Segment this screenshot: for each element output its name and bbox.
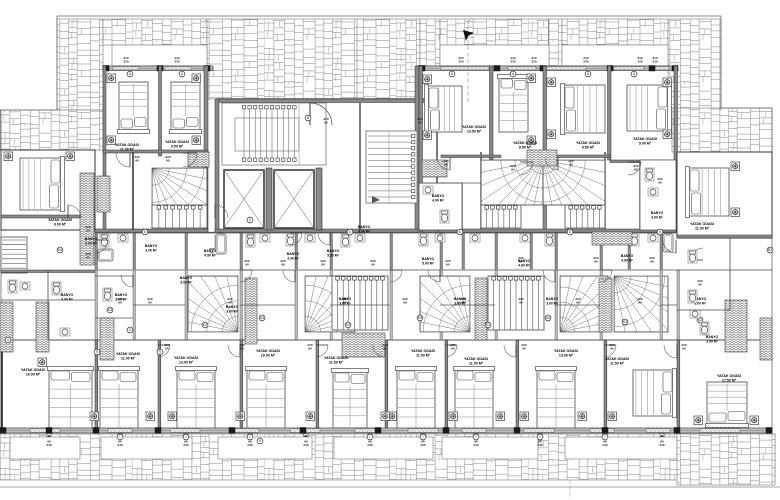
door xyxy=(628,162,641,175)
wall right wing v xyxy=(729,238,731,310)
lamp xyxy=(236,412,245,421)
svg-text:YATAK ODASI: YATAK ODASI xyxy=(554,349,578,353)
svg-text:t: t xyxy=(120,435,121,439)
bottom zone wall xyxy=(295,270,298,340)
lamp xyxy=(192,74,201,83)
terrace door post xyxy=(538,434,542,437)
tag circle xyxy=(107,307,113,313)
bottom hatch band xyxy=(0,434,775,480)
svg-text:90: 90 xyxy=(522,346,526,350)
elevator shaft 1 xyxy=(224,170,264,228)
bath wall xyxy=(495,233,498,269)
svg-text:K2: K2 xyxy=(346,323,350,327)
terrace xyxy=(334,437,433,459)
bottom bedroom top wall xyxy=(1,339,772,341)
svg-text:9.50 M²: 9.50 M² xyxy=(519,146,532,150)
terrace door post xyxy=(368,434,372,437)
bottom window wall xyxy=(0,428,772,433)
wardrobe xyxy=(97,176,110,212)
fan stair top-right pair1 xyxy=(466,160,543,237)
svg-text:D4: D4 xyxy=(418,316,422,320)
toilet xyxy=(545,233,554,246)
door xyxy=(663,240,676,253)
column xyxy=(419,66,425,72)
column xyxy=(300,428,306,434)
door xyxy=(68,205,81,218)
tag circle xyxy=(183,434,189,440)
wall left wing bedroom bottom xyxy=(1,215,95,218)
svg-text:220: 220 xyxy=(174,59,179,63)
lamp xyxy=(423,75,432,84)
svg-text:BANYO: BANYO xyxy=(546,297,559,301)
svg-text:90: 90 xyxy=(240,346,244,350)
wall between top-left units xyxy=(159,66,162,156)
svg-text:3.00 M²: 3.00 M² xyxy=(339,301,351,305)
svg-text:9.00 M²: 9.00 M² xyxy=(639,142,652,146)
door xyxy=(318,233,330,245)
svg-text:90: 90 xyxy=(324,120,328,124)
svg-text:90: 90 xyxy=(166,158,170,162)
bed top unit4 xyxy=(498,75,530,133)
column xyxy=(602,428,608,434)
svg-text:YATAK ODASI: YATAK ODASI xyxy=(633,137,657,141)
outer boundary right upper xyxy=(720,16,722,110)
svg-text:6: 6 xyxy=(349,230,351,234)
svg-text:240: 240 xyxy=(367,443,372,447)
bath wall xyxy=(330,233,333,269)
core left wall xyxy=(215,99,219,232)
svg-text:t: t xyxy=(540,435,541,439)
lamp xyxy=(306,412,315,421)
bath wall xyxy=(628,233,631,269)
svg-text:90: 90 xyxy=(658,180,662,184)
ground line xyxy=(0,486,780,488)
svg-text:10.00 M²: 10.00 M² xyxy=(261,354,276,358)
terrace door post xyxy=(304,434,308,437)
svg-text:BANYO: BANYO xyxy=(204,249,217,253)
tag circle xyxy=(767,247,773,253)
svg-text:240: 240 xyxy=(473,443,478,447)
wardrobe xyxy=(422,160,447,177)
window wall band top-left xyxy=(103,66,213,71)
toilet xyxy=(246,234,255,247)
svg-text:6: 6 xyxy=(659,230,661,234)
roof hatch left wing xyxy=(0,110,103,150)
svg-text:90: 90 xyxy=(403,300,407,304)
door xyxy=(215,205,228,218)
toilet xyxy=(215,235,224,248)
svg-text:9: 9 xyxy=(96,350,98,354)
wall top-right unit xyxy=(608,66,612,160)
column xyxy=(0,428,6,434)
bottom zone wall xyxy=(660,270,663,340)
lamp xyxy=(527,136,536,145)
sink xyxy=(690,310,700,318)
bottom zone wall xyxy=(555,270,558,340)
svg-text:t: t xyxy=(370,435,371,439)
bed bottom left wing (16.00) xyxy=(48,367,94,431)
wardrobe xyxy=(599,278,612,332)
svg-text:4.60 M²: 4.60 M² xyxy=(621,258,633,262)
bath wall xyxy=(600,233,603,269)
tag circle xyxy=(602,434,608,440)
svg-text:220: 220 xyxy=(637,59,642,63)
svg-text:4: 4 xyxy=(7,338,9,342)
lamp xyxy=(66,152,75,161)
wardrobe xyxy=(188,152,209,167)
svg-text:YATAK ODASI: YATAK ODASI xyxy=(165,140,189,144)
terrace door post xyxy=(248,434,252,437)
terrace xyxy=(442,437,538,459)
wall right wing mid xyxy=(677,269,772,271)
svg-text:BANYO: BANYO xyxy=(651,211,664,215)
svg-text:90: 90 xyxy=(698,282,702,286)
svg-text:9: 9 xyxy=(159,350,161,354)
svg-text:BANYO: BANYO xyxy=(61,293,74,297)
toilet xyxy=(286,233,295,246)
bottom bedroom wall xyxy=(316,340,319,432)
svg-text:9.50 M²: 9.50 M² xyxy=(171,145,184,149)
lamp xyxy=(547,78,556,87)
door xyxy=(316,345,328,357)
tag circle xyxy=(420,434,426,440)
wardrobe xyxy=(342,333,385,357)
door xyxy=(664,345,677,358)
bath wall xyxy=(462,233,465,269)
svg-text:9: 9 xyxy=(259,439,261,443)
svg-text:90: 90 xyxy=(308,346,312,350)
svg-text:YATAK ODASI: YATAK ODASI xyxy=(256,349,280,353)
terrace door post xyxy=(184,434,188,437)
toilet xyxy=(700,322,709,335)
bottom bedroom wall xyxy=(445,340,448,432)
svg-text:3.00 M²: 3.00 M² xyxy=(226,309,238,313)
door xyxy=(543,270,555,282)
door xyxy=(390,270,402,282)
left wing stair treads xyxy=(2,240,26,268)
svg-text:D4: D4 xyxy=(546,316,550,320)
svg-text:220: 220 xyxy=(458,59,463,63)
roof hatch top-left corner block xyxy=(57,19,103,110)
svg-text:3.00 M²: 3.00 M² xyxy=(145,248,157,252)
column xyxy=(649,66,655,72)
lamp xyxy=(146,412,155,421)
toilet xyxy=(103,288,112,301)
wall under top-right bedrooms xyxy=(441,155,501,158)
tag circle xyxy=(247,217,253,223)
tag circle xyxy=(117,434,123,440)
bottom zone compartment wall2 xyxy=(95,317,133,319)
svg-text:4.90 M²: 4.90 M² xyxy=(432,198,444,202)
wall top-right unit xyxy=(543,66,547,232)
tag circle xyxy=(345,322,351,328)
roof hatch core block xyxy=(207,19,420,99)
sink xyxy=(605,234,615,242)
svg-text:5.30 M²: 5.30 M² xyxy=(327,253,339,257)
svg-text:240: 240 xyxy=(46,443,51,447)
svg-text:BANYO: BANYO xyxy=(339,297,352,301)
balcony top-left units xyxy=(112,45,207,66)
svg-text:BANYO: BANYO xyxy=(287,252,300,256)
bath wall xyxy=(440,233,443,269)
svg-text:240: 240 xyxy=(537,443,542,447)
bath wall xyxy=(660,233,663,269)
tag circle xyxy=(485,322,491,328)
bottom zone compartment wall xyxy=(330,304,390,306)
bottom stair fan 4 xyxy=(560,258,634,332)
elevator 2 cross xyxy=(274,170,314,228)
lamp xyxy=(4,152,13,161)
sink xyxy=(470,234,480,242)
lamp xyxy=(90,412,99,421)
svg-text:YATAK ODASI: YATAK ODASI xyxy=(464,357,488,361)
svg-text:3.00 M²: 3.00 M² xyxy=(651,215,663,219)
bottom zone wall xyxy=(600,270,603,340)
wall top row bottom right xyxy=(438,229,676,233)
bed bottom u5 xyxy=(396,367,437,431)
roof hatch band mid-right xyxy=(549,19,562,66)
svg-text:YATAK ODASI: YATAK ODASI xyxy=(116,352,140,356)
svg-text:5.00 M²: 5.00 M² xyxy=(358,229,370,233)
bathroom right box xyxy=(640,160,676,230)
svg-text:YATAK ODASI: YATAK ODASI xyxy=(174,356,198,360)
svg-text:BANYO: BANYO xyxy=(621,254,634,258)
wardrobe xyxy=(100,318,114,360)
outer boundary left edge xyxy=(0,110,2,430)
entrance axis dashed xyxy=(467,20,469,103)
tag circle xyxy=(567,229,573,235)
svg-text:3.00 M²: 3.00 M² xyxy=(115,297,127,301)
roof hatch core seam xyxy=(356,19,358,99)
svg-text:BANYO: BANYO xyxy=(454,297,467,301)
svg-text:YATAK ODASI: YATAK ODASI xyxy=(605,357,629,361)
lamp xyxy=(547,130,556,139)
bottom zone compartment wall xyxy=(133,304,185,306)
left wing stair box xyxy=(1,237,27,273)
outer boundary top xyxy=(57,15,721,17)
bottom zone compartment wall xyxy=(440,304,495,306)
elevator 1 cross xyxy=(224,170,264,228)
tub xyxy=(98,249,113,261)
tag circle xyxy=(247,434,253,440)
bottom bedroom wall xyxy=(240,340,243,432)
svg-text:K2: K2 xyxy=(203,323,207,327)
svg-text:240: 240 xyxy=(303,443,308,447)
svg-text:90: 90 xyxy=(86,228,90,232)
svg-text:BANYO: BANYO xyxy=(358,225,371,229)
lamp xyxy=(750,416,759,425)
toilet xyxy=(645,168,654,181)
bed top unit5 xyxy=(561,84,606,135)
sink xyxy=(355,234,365,242)
bed top unit6 xyxy=(627,84,672,133)
bottom zone wall xyxy=(440,270,443,340)
roof hatch step right of core xyxy=(420,19,440,66)
wall right wing bedroom bottom xyxy=(677,235,772,238)
bottom bedroom wall xyxy=(385,340,388,432)
svg-text:3.00 M²: 3.00 M² xyxy=(454,301,466,305)
door xyxy=(504,345,516,357)
column xyxy=(514,428,520,434)
sink xyxy=(118,234,128,242)
door xyxy=(158,345,170,357)
roof hatch right wing xyxy=(672,108,772,152)
wall under top-right bedrooms 2 xyxy=(490,160,543,163)
svg-text:BANYO: BANYO xyxy=(327,249,340,253)
lamp xyxy=(496,412,505,421)
left wing outline xyxy=(1,150,95,230)
wardrobe xyxy=(245,278,257,344)
svg-text:BANYO: BANYO xyxy=(422,257,435,261)
door xyxy=(428,270,440,282)
bottom bedroom wall xyxy=(677,340,680,432)
tag circle xyxy=(305,115,311,121)
wall under top-right bedrooms 3 xyxy=(543,155,610,158)
svg-text:90: 90 xyxy=(228,300,232,304)
right wing stair xyxy=(614,276,692,354)
roof hatch top-right corner block xyxy=(668,19,721,110)
svg-text:YATAK ODASI: YATAK ODASI xyxy=(462,125,486,129)
tag circle xyxy=(417,315,423,321)
tag circle xyxy=(657,229,663,235)
tag circle xyxy=(697,317,703,323)
wall top-right unit xyxy=(674,66,678,232)
entrance porch xyxy=(440,45,549,66)
svg-text:90: 90 xyxy=(281,262,285,266)
bottom stair fan 2 xyxy=(305,257,380,332)
wall hall-bath r xyxy=(639,160,641,230)
svg-text:BANYO: BANYO xyxy=(432,194,445,198)
bed top unit1 xyxy=(118,82,150,134)
bottom zone wall xyxy=(677,270,680,340)
terrace door post xyxy=(660,434,664,437)
svg-text:BANYO: BANYO xyxy=(226,305,239,309)
stair U flight box xyxy=(222,103,326,165)
tag circle xyxy=(449,71,455,77)
wardrobe xyxy=(527,150,557,166)
svg-text:220: 220 xyxy=(123,59,128,63)
left wing lower bath wall xyxy=(95,275,133,277)
bathroom 13.50 unit box xyxy=(419,183,462,230)
bed bottom u2 xyxy=(176,367,217,431)
lamp xyxy=(527,74,536,83)
svg-text:13.00 M²: 13.00 M² xyxy=(559,354,574,358)
bottom zone wall xyxy=(133,270,136,340)
wardrobe xyxy=(475,278,487,340)
wall left edge of unit row xyxy=(103,66,106,231)
lamp xyxy=(388,412,397,421)
svg-text:240: 240 xyxy=(117,443,122,447)
lamp xyxy=(663,130,672,139)
door xyxy=(228,345,240,357)
svg-text:240: 240 xyxy=(183,443,188,447)
terrace door post xyxy=(47,434,51,437)
stair top-right pair2 xyxy=(543,160,620,237)
left wing bedroom wall xyxy=(1,340,3,432)
svg-text:90: 90 xyxy=(451,346,455,350)
toilet xyxy=(341,234,350,247)
core door arc xyxy=(310,103,332,125)
svg-text:t: t xyxy=(605,435,606,439)
door xyxy=(240,270,252,282)
tag circle xyxy=(202,322,208,328)
lamp xyxy=(38,358,47,367)
section axis dashed xyxy=(569,395,571,499)
svg-text:3.00 M²: 3.00 M² xyxy=(546,301,558,305)
bed top unit2 xyxy=(170,82,202,134)
svg-text:90: 90 xyxy=(245,262,249,266)
core bottom wall xyxy=(215,229,438,233)
svg-text:90: 90 xyxy=(444,162,448,166)
svg-text:B2: B2 xyxy=(768,248,772,252)
svg-text:t: t xyxy=(186,435,187,439)
wardrobe xyxy=(80,173,94,265)
core right wall xyxy=(415,66,419,232)
sink xyxy=(648,188,658,196)
door xyxy=(604,345,616,357)
svg-text:240: 240 xyxy=(420,443,425,447)
svg-text:90: 90 xyxy=(594,259,598,263)
svg-text:240: 240 xyxy=(602,443,607,447)
toilet xyxy=(688,250,697,263)
svg-text:3.00 M²: 3.00 M² xyxy=(61,297,73,301)
wall bedroom bottom top-left pair xyxy=(103,150,208,153)
tag circle xyxy=(622,319,628,325)
wardrobe xyxy=(725,300,747,352)
svg-text:YATAK ODASI: YATAK ODASI xyxy=(324,356,348,360)
wardrobe xyxy=(0,302,13,352)
svg-text:90: 90 xyxy=(576,300,580,304)
svg-text:90: 90 xyxy=(610,346,614,350)
door xyxy=(437,157,450,170)
bottom zone wall xyxy=(390,270,393,340)
core outline xyxy=(217,99,437,232)
lamp xyxy=(423,131,432,140)
balcony top-right units xyxy=(562,45,668,66)
svg-text:D4: D4 xyxy=(260,316,264,320)
svg-text:240: 240 xyxy=(659,443,664,447)
bed bottom u7 xyxy=(536,367,577,431)
bottom stair straight 2 xyxy=(488,276,544,330)
bed bottom u8 (horizontal) xyxy=(633,369,677,418)
bottom zone compartment wall xyxy=(660,304,677,306)
bath strip top wall xyxy=(95,232,677,233)
svg-text:BANYO: BANYO xyxy=(115,293,128,297)
lamp xyxy=(578,412,587,421)
lamp xyxy=(731,162,740,171)
svg-text:11.00 M²: 11.00 M² xyxy=(416,354,431,358)
door xyxy=(600,270,612,282)
toilet xyxy=(8,280,17,293)
window wall band top-right xyxy=(423,66,676,71)
svg-text:11.00 M²: 11.00 M² xyxy=(121,357,136,361)
svg-text:11.50 M²: 11.50 M² xyxy=(610,362,625,366)
column xyxy=(204,66,210,72)
column xyxy=(494,66,500,72)
svg-text:90: 90 xyxy=(634,167,638,171)
tag circle xyxy=(5,337,11,343)
terrace door post xyxy=(474,434,478,437)
svg-text:90: 90 xyxy=(569,162,573,166)
sink xyxy=(520,234,530,242)
column xyxy=(157,66,163,72)
svg-text:90: 90 xyxy=(638,300,642,304)
svg-text:YATAK ODASI: YATAK ODASI xyxy=(717,374,741,378)
svg-text:11.00 M²: 11.00 M² xyxy=(695,227,710,231)
tag circle xyxy=(545,315,551,321)
lamp xyxy=(694,416,703,425)
terrace xyxy=(10,437,80,459)
